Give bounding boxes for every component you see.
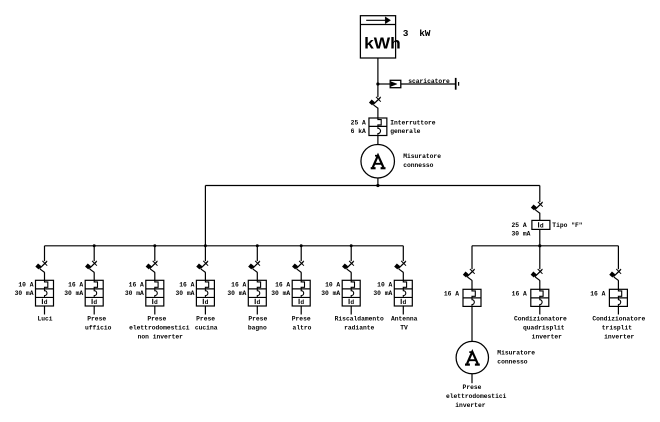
svg-text:30 mA: 30 mA bbox=[373, 290, 392, 297]
svg-text:d: d bbox=[154, 299, 158, 306]
svg-text:30 mA: 30 mA bbox=[175, 290, 194, 297]
svg-text:25 A: 25 A bbox=[512, 222, 527, 229]
svg-text:Antenna: Antenna bbox=[391, 316, 418, 323]
svg-text:25 A: 25 A bbox=[351, 119, 366, 126]
svg-text:Prese: Prese bbox=[463, 384, 482, 391]
svg-text:Prese: Prese bbox=[196, 316, 215, 323]
svg-text:Tipo "F": Tipo "F" bbox=[552, 222, 582, 229]
svg-text:30 mA: 30 mA bbox=[321, 290, 340, 297]
svg-text:d: d bbox=[350, 299, 354, 306]
svg-text:10 A: 10 A bbox=[18, 281, 33, 288]
svg-text:connesso: connesso bbox=[403, 162, 433, 169]
svg-text:elettrodomestici: elettrodomestici bbox=[129, 325, 190, 332]
svg-text:16 A: 16 A bbox=[275, 281, 290, 288]
svg-text:d: d bbox=[403, 299, 407, 306]
svg-text:d: d bbox=[93, 299, 97, 306]
svg-text:generale: generale bbox=[390, 128, 420, 135]
svg-text:10 A: 10 A bbox=[325, 281, 340, 288]
svg-text:16 A: 16 A bbox=[590, 291, 605, 298]
svg-text:inverter: inverter bbox=[532, 334, 562, 341]
svg-text:16 A: 16 A bbox=[512, 291, 527, 298]
svg-text:ufficio: ufficio bbox=[85, 325, 112, 332]
svg-text:TV: TV bbox=[400, 325, 408, 332]
svg-text:Prese: Prese bbox=[248, 316, 267, 323]
svg-text:3 kW: 3 kW bbox=[403, 28, 431, 39]
svg-text:altro: altro bbox=[293, 325, 312, 332]
svg-text:non inverter: non inverter bbox=[138, 334, 184, 341]
svg-text:Condizionatore: Condizionatore bbox=[514, 316, 567, 323]
svg-text:radiante: radiante bbox=[344, 325, 374, 332]
svg-text:quadrisplit: quadrisplit bbox=[523, 325, 565, 332]
svg-text:30 mA: 30 mA bbox=[512, 231, 531, 238]
svg-text:16 A: 16 A bbox=[444, 291, 459, 298]
svg-text:inverter: inverter bbox=[604, 334, 634, 341]
svg-text:d: d bbox=[300, 299, 304, 306]
svg-text:Prese: Prese bbox=[147, 316, 166, 323]
svg-text:16 A: 16 A bbox=[231, 281, 246, 288]
svg-text:16 A: 16 A bbox=[129, 281, 144, 288]
svg-text:Misuratore: Misuratore bbox=[403, 153, 441, 160]
svg-text:30 mA: 30 mA bbox=[64, 290, 83, 297]
svg-text:d: d bbox=[205, 299, 209, 306]
svg-text:cucina: cucina bbox=[195, 325, 218, 332]
svg-text:elettrodomestici: elettrodomestici bbox=[446, 393, 507, 400]
svg-text:Prese: Prese bbox=[292, 316, 311, 323]
svg-text:6 kA: 6 kA bbox=[351, 128, 366, 135]
svg-text:Prese: Prese bbox=[87, 316, 106, 323]
svg-text:16 A: 16 A bbox=[68, 281, 83, 288]
svg-text:connesso: connesso bbox=[497, 359, 527, 366]
svg-text:16 A: 16 A bbox=[179, 281, 194, 288]
svg-text:Riscaldamento: Riscaldamento bbox=[335, 316, 384, 323]
svg-text:Luci: Luci bbox=[37, 316, 52, 323]
svg-text:d: d bbox=[44, 299, 48, 306]
svg-text:bagno: bagno bbox=[248, 325, 267, 332]
svg-text:Misuratore: Misuratore bbox=[497, 350, 535, 357]
svg-text:inverter: inverter bbox=[455, 402, 485, 409]
svg-text:scaricatore: scaricatore bbox=[408, 78, 450, 85]
svg-text:10 A: 10 A bbox=[377, 281, 392, 288]
svg-text:trisplit: trisplit bbox=[602, 325, 632, 332]
svg-text:30 mA: 30 mA bbox=[15, 290, 34, 297]
svg-text:30 mA: 30 mA bbox=[271, 290, 290, 297]
svg-text:d: d bbox=[257, 299, 261, 306]
svg-text:kWh: kWh bbox=[364, 36, 401, 53]
svg-text:30 mA: 30 mA bbox=[125, 290, 144, 297]
svg-text:Interruttore: Interruttore bbox=[390, 119, 436, 126]
svg-text:30 mA: 30 mA bbox=[227, 290, 246, 297]
svg-text:d: d bbox=[540, 223, 544, 230]
svg-text:Condizionatore: Condizionatore bbox=[592, 316, 645, 323]
